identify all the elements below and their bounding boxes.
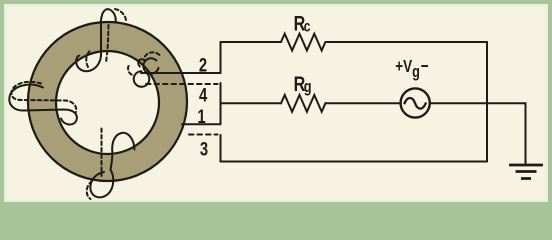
svg-text:Rg: Rg	[294, 73, 312, 97]
wire resistor Rg to source	[325, 102, 401, 104]
svg-text:1: 1	[197, 106, 205, 127]
source Vg sine symbol	[405, 98, 426, 109]
winding turn top inner hook	[76, 56, 101, 72]
svg-text:Rc: Rc	[294, 12, 311, 36]
wire terminal 1	[182, 123, 221, 125]
winding turn top (solid loop)	[101, 9, 116, 56]
svg-text:3: 3	[200, 139, 208, 160]
winding loop A curl	[138, 59, 145, 66]
wire terminal 2 from winding	[141, 72, 221, 74]
winding turn left (solid loop)	[9, 85, 77, 125]
ground	[509, 165, 543, 179]
wire terminal 4 (dashed, hidden)	[146, 83, 218, 85]
wire terminal 3 corner	[220, 135, 222, 162]
svg-text:2: 2	[199, 55, 207, 76]
winding turn top hidden wire (dashed)	[106, 25, 109, 62]
winding loop B at 2 o'clock	[131, 68, 153, 90]
winding turn top hidden arc (dashed)	[115, 9, 126, 20]
winding turn top-left hidden arc (dashed)	[86, 51, 90, 68]
winding turn bottom hidden left arc (dashed)	[87, 181, 92, 199]
wire terminal 3 (dashed, hidden)	[189, 134, 218, 136]
wire Rg stub	[221, 102, 282, 104]
winding turn bottom (solid loop)	[90, 133, 134, 198]
wire source to ground drop	[430, 102, 526, 104]
winding loop A at 2 o'clock	[142, 57, 161, 76]
transformer core T1 (toroid inner hole)	[56, 51, 159, 154]
winding turn left hidden wire (dashed)	[11, 82, 76, 112]
wire right vertical	[486, 42, 488, 162]
svg-text:4: 4	[199, 85, 208, 106]
svg-text:+Vg−: +Vg−	[395, 57, 428, 81]
wire terminal 2 riser	[220, 42, 222, 73]
source Vg circle	[401, 88, 430, 117]
wire ground drop vertical	[525, 103, 527, 165]
winding loop A hidden arc (dashed)	[145, 52, 160, 56]
transformer core T1 (toroid outer)	[28, 22, 187, 181]
wire bottom return	[221, 161, 488, 163]
winding loop B hidden arc (dashed)	[128, 66, 134, 76]
resistor Rc	[281, 34, 325, 51]
resistor Rg	[281, 95, 325, 112]
wire top to resistor Rc	[221, 41, 282, 43]
wire resistor Rc to right	[325, 41, 487, 43]
wire terminal 4/1 bracket	[220, 83, 222, 124]
winding turn bottom hidden wire (dashed)	[101, 129, 103, 177]
